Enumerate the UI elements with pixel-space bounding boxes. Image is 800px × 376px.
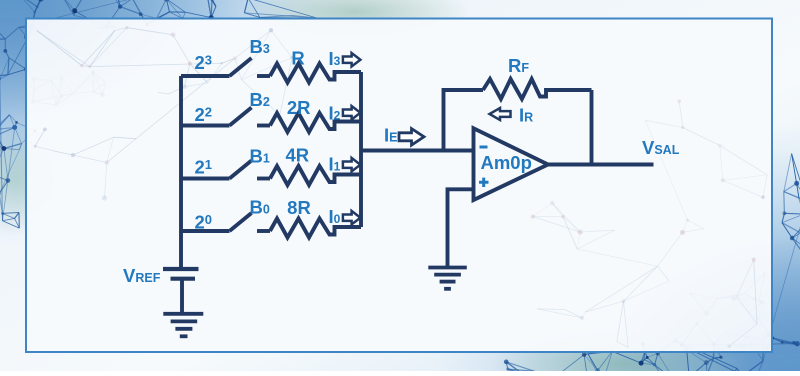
resistor 2R xyxy=(270,113,361,132)
op-amp U1 triangle xyxy=(474,128,549,200)
current arrow IR xyxy=(490,108,511,120)
wire: + input to ground xyxy=(448,189,476,267)
wire: battery to ground xyxy=(180,279,184,314)
svg-text:8R: 8R xyxy=(287,197,311,218)
battery VREF: bottom plate xyxy=(171,277,196,281)
svg-text:4R: 4R xyxy=(285,145,309,166)
current arrow I2 xyxy=(343,106,361,120)
current arrow I0 xyxy=(343,211,361,225)
switch B0 fixed contact stub xyxy=(257,229,270,233)
current arrow IE xyxy=(399,129,424,146)
faint inner plexus xyxy=(34,26,294,201)
output wire VSAL xyxy=(548,163,654,167)
battery VREF: top plate xyxy=(163,267,199,271)
feedback wire: up from IE node over RF xyxy=(444,90,484,151)
wire row 3: left bus to switch xyxy=(181,177,230,181)
svg-text:R: R xyxy=(291,48,304,69)
switch B1 fixed contact stub xyxy=(257,177,270,181)
wire IE: bus to op-amp xyxy=(361,149,474,153)
resistor 4R xyxy=(270,166,361,185)
decorative plexus outside frame (top-left) xyxy=(0,0,317,228)
wire row 1: left bus to switch xyxy=(181,74,230,78)
resistor 8R xyxy=(270,219,361,238)
current arrow I1 xyxy=(343,158,361,172)
switch B2 blade xyxy=(230,108,252,126)
decorative plexus outside frame (bottom-right) xyxy=(504,154,800,376)
resistor R xyxy=(270,64,361,83)
wire: RF right leg down to output xyxy=(590,90,594,165)
switch B1 blade xyxy=(230,161,252,179)
right bus wire xyxy=(359,72,363,227)
current arrow I3 xyxy=(343,53,361,67)
switch B3 fixed contact stub xyxy=(257,74,270,78)
switch B0 blade xyxy=(230,213,252,231)
resistor RF xyxy=(483,79,592,99)
ground (VREF) xyxy=(163,312,203,316)
op-amp minus sign xyxy=(480,146,488,149)
switch B3 blade xyxy=(230,58,252,76)
wire row 2: left bus to switch xyxy=(181,124,230,128)
svg-text:2R: 2R xyxy=(287,97,311,118)
switch B2 fixed contact stub xyxy=(257,124,270,128)
svg-text:Am0p: Am0p xyxy=(481,152,532,173)
ground (op-amp + input) xyxy=(428,266,467,270)
left bus wire xyxy=(179,76,183,269)
op-amp plus sign xyxy=(479,178,489,187)
wire row 4: left bus to switch xyxy=(181,229,230,233)
